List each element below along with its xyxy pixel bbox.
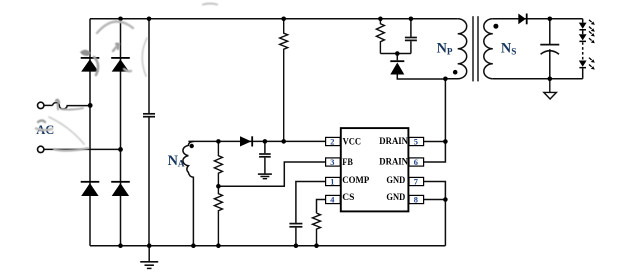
transformer primary NP winding [445,19,466,79]
LED string column wires [582,19,584,79]
junction VCC rail / R1 [281,139,286,144]
resistor R4 CS [313,213,321,246]
junction bottom rail / D4 leg [118,243,123,248]
resistor R5 snubber [376,19,384,54]
svg-text:5: 5 [414,137,418,146]
junction fuse / bridge leg [88,103,93,108]
svg-text:COMP: COMP [342,176,369,186]
junction aux phase dot [190,144,194,148]
wire VCC rail [188,140,325,142]
junction snubber / D6 [395,51,400,56]
svg-text:FB: FB [342,158,353,168]
AC source terminal bottom [38,146,44,152]
pin 7 box [409,177,424,185]
wire left bridge leg [89,19,91,246]
pin 5 box [409,137,424,145]
wire secondary bottom [493,78,583,80]
wire snubber to drain node [397,75,445,80]
junction bottom rail / NA [191,243,196,248]
junction top rail / D2 leg [118,17,123,22]
diode D2 bridge top-right [111,57,130,72]
wire bottom ground rail [90,245,445,247]
svg-text:CS: CS [342,193,354,203]
junction VCC rail / C2 [263,139,268,144]
svg-text:DRAIN: DRAIN [379,158,408,168]
wire gnd pin8 [424,199,446,201]
ground at C2 [258,174,272,179]
inductor NA auxiliary winding [183,141,194,245]
pin 3 box [326,158,341,166]
wire gnd pin7 [424,182,446,246]
junction secondary top / C5 [548,17,553,22]
resistor R2 divider upper [214,141,222,186]
wire top rail [90,18,458,20]
svg-text:DRAIN: DRAIN [379,137,408,147]
pin 2 box [326,137,341,145]
wire right bridge leg [120,19,122,246]
diode D1 bridge top-left [81,57,100,72]
wire AC neutral to bridge [44,148,120,150]
pin 8 box [409,195,424,203]
junction top rail / R1 [281,17,286,22]
junction primary bottom / drain [443,77,448,82]
svg-text:6: 6 [414,158,418,167]
wire drain pin6 [424,79,446,162]
wire CS [317,200,326,214]
junction top rail / C1 [147,17,152,22]
ground output open triangle [544,79,557,99]
pin 4 box [326,195,341,203]
pin 1 box [326,177,341,185]
junction primary phase dot [453,70,458,75]
LED D9 [579,34,587,42]
svg-text:GND: GND [386,176,405,186]
capacitor C1 bulk [143,19,155,246]
wire snubber join [380,53,411,55]
junction VCC rail / divider [216,139,221,144]
diode D7 output rectifier [518,14,527,25]
junction neutral / D2 leg [118,147,123,152]
junction top rail / R5 [378,17,383,22]
svg-text:2: 2 [330,137,334,146]
pin 6 box [409,158,424,166]
wire drain pin5 [424,141,446,143]
capacitor C5 output electrolytic [540,19,559,79]
LED D8 [579,23,587,31]
diode D3 bridge bottom-left [81,181,100,196]
junction secondary phase dot [493,24,498,29]
capacitor C4 snubber [405,19,417,54]
wire FB to divider [218,162,325,186]
wire fuse to bridge [44,104,52,106]
capacitor C2 VCC [259,141,271,173]
junction top rail / C4 [409,17,414,22]
AC source terminal top [38,102,44,108]
capacitor C3 COMP [289,224,302,246]
fuse F1 [53,103,90,109]
wire secondary top [493,18,583,20]
svg-text:VCC: VCC [343,138,362,148]
junction gnd pin8 [443,197,448,202]
junction bottom rail / C1 ground [147,243,152,248]
resistor R1 startup [280,19,288,142]
scan smudge artifacts [36,4,217,151]
junction bottom rail / divider [216,243,221,248]
transformer secondary NS winding [484,19,493,79]
svg-text:7: 7 [414,177,418,186]
op-amp U1 controller IC body [341,128,409,211]
diode D6 clamp [390,54,404,75]
svg-text:GND: GND [386,193,405,203]
svg-text:8: 8 [414,195,418,204]
svg-text:1: 1 [330,177,334,186]
LED D10 [579,61,587,69]
junction FB / divider [216,184,221,189]
junction bottom rail / R4 [314,243,319,248]
junction drain pin5 [443,139,448,144]
transformer core [473,16,478,81]
resistor R3 divider lower [214,186,222,245]
junction bottom rail / C3 [294,243,299,248]
wire COMP [296,182,326,223]
ground at C1 [140,246,158,269]
diode D5 aux rectifier [240,136,253,146]
diode D4 bridge bottom-right [111,181,130,196]
svg-text:3: 3 [330,158,334,167]
junction secondary bottom / C5 [548,77,553,82]
